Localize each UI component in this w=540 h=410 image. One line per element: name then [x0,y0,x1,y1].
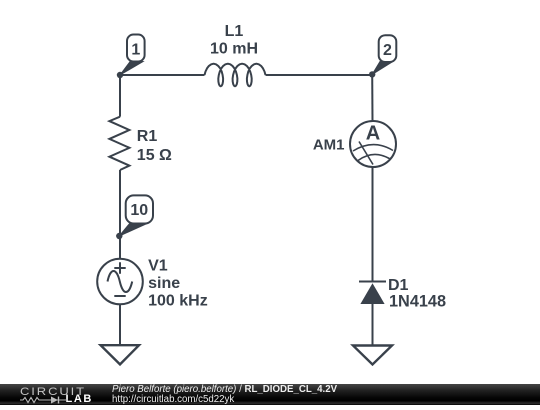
wire right vertical (AM1 bottom to D1 cathode) [372,167,374,282]
wire left vertical (V1 bottom to ground) [119,304,121,345]
junction dot node 1 [117,72,123,78]
node 2 flag pointer [372,62,392,75]
junction dot node 2 [369,71,375,77]
svg-text:D1: D1 [388,277,409,294]
CircuitLab logo LAB [66,393,93,405]
ground symbol right [353,346,392,365]
diode D1 triangle [360,283,384,304]
svg-text:AM1: AM1 [313,137,345,154]
junction dot node 10 [116,233,122,239]
svg-text:1N4148: 1N4148 [389,293,446,311]
svg-text:A: A [366,123,380,145]
svg-text:sine: sine [148,275,180,292]
ammeter AM1 circle [350,121,396,167]
voltage source V1 circle [97,259,143,305]
V1 plus sign [114,262,125,273]
svg-text:1: 1 [131,42,140,59]
V1 sine wave [108,271,133,292]
CircuitLab logo wire with resistor and diode [20,396,68,404]
AM1 meter upper arc [353,145,393,151]
node 1 flag pointer [120,61,143,75]
wire top-left horizontal (node1 to L1) [120,74,205,76]
wire left vertical (node10 dot to V1 top) [119,236,121,260]
svg-text:100 kHz: 100 kHz [148,292,208,309]
svg-text:10: 10 [130,202,148,219]
resistor R1 zigzag [109,117,129,170]
svg-text:R1: R1 [137,128,158,145]
AM1 meter lower arc [358,154,391,160]
wire right vertical (node2 to AM1 top) [371,74,373,121]
footer bar [0,384,540,405]
svg-text:V1: V1 [148,258,168,275]
node 10 box [126,195,153,223]
inductor L1 coil [205,64,266,87]
wire left vertical (node1 to R1 top) [119,74,121,117]
wire left vertical (R1 bottom to node10 dot) [119,170,121,236]
svg-text:L1: L1 [225,23,244,40]
svg-text:15 Ω: 15 Ω [137,147,172,164]
V1 minus sign [114,295,125,297]
node 1 box [127,35,145,62]
AM1 needle [359,142,373,165]
url line [112,394,234,405]
node 10 flag pointer [119,223,147,236]
wire right vertical (D1 anode to ground) [372,304,374,346]
wire top-right horizontal (L1 to node2) [266,74,373,76]
node 2 box [379,35,397,62]
diode D1 cathode bar [359,281,386,283]
author line [112,384,337,395]
CircuitLab logo text CIRCUIT [20,385,86,397]
ground symbol left [101,345,139,364]
svg-text:10 mH: 10 mH [210,41,258,58]
svg-text:2: 2 [383,42,392,59]
